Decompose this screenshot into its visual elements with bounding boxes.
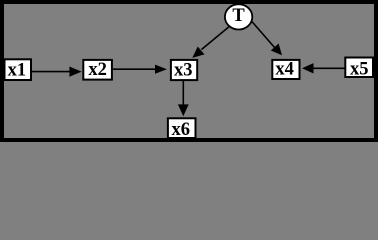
svg-text:x4: x4 <box>275 60 294 80</box>
node x5 <box>345 58 373 80</box>
frame top <box>0 0 378 4</box>
arrowhead x3 to x6 <box>178 104 189 116</box>
svg-text:x1: x1 <box>8 61 27 81</box>
node x1 <box>5 59 32 80</box>
svg-text:x2: x2 <box>88 60 107 80</box>
arrowhead x1 to x2 <box>69 67 81 77</box>
node x2 <box>83 60 112 80</box>
arrowhead x5 to x4 <box>302 63 314 73</box>
arrowhead T to x3 <box>192 47 204 58</box>
node x3 <box>171 60 197 81</box>
arrowhead x2 to x3 <box>155 65 167 74</box>
frame right <box>374 0 378 142</box>
svg-text:x3: x3 <box>174 61 193 81</box>
wire T to x4 <box>251 21 275 49</box>
wire x2 to x3 <box>112 68 156 70</box>
wire x5 to x4 <box>313 67 345 69</box>
node x6 <box>168 118 196 140</box>
frame bottom <box>0 138 378 142</box>
svg-text:T: T <box>232 6 245 26</box>
node x4 <box>272 60 299 80</box>
arrowhead T to x4 <box>271 44 282 56</box>
svg-text:x5: x5 <box>350 60 369 80</box>
node T <box>225 4 252 29</box>
frame left <box>0 0 4 142</box>
wire x1 to x2 <box>32 71 71 73</box>
wire x3 to x6 <box>182 81 184 106</box>
wire T to x3 <box>202 26 231 50</box>
svg-text:x6: x6 <box>172 120 191 140</box>
